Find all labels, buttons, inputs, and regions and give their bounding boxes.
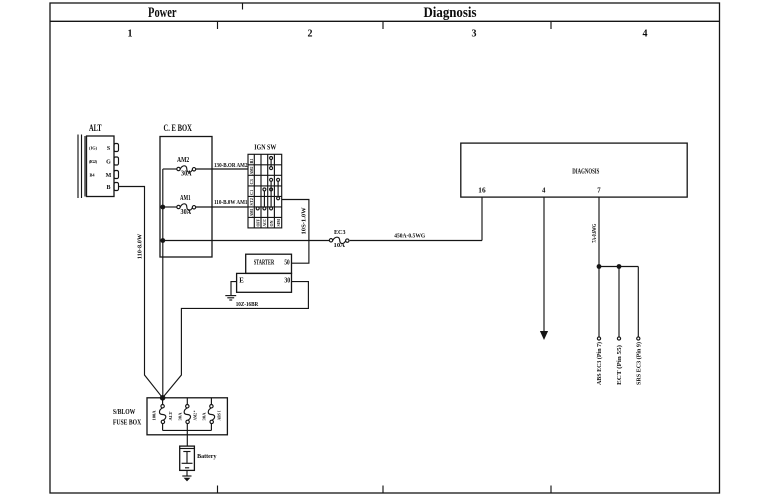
junction branch pin 7 [597,264,639,269]
svg-text:(IG): (IG) [89,146,98,151]
svg-text:ABS EC3 (Pin 7): ABS EC3 (Pin 7) [596,342,603,385]
svg-text:M: M [106,173,112,179]
svg-text:DIAGNOSIS: DIAGNOSIS [572,169,599,176]
svg-text:ON: ON [269,220,274,227]
fuse AM2 30A [163,157,248,178]
wire ALT B to fuse box junction [119,187,163,398]
svg-text:(IG2): (IG2) [89,159,98,164]
wire starter 30 to fuse box junction [163,282,309,398]
fuse EC3 10A [329,229,349,249]
svg-text:4: 4 [542,188,546,195]
svg-text:ALT: ALT [89,124,102,134]
bus wire C.E BOX to fuse box [162,169,164,398]
fuse AM1 30A [160,195,248,216]
fuse ABS 30A (fuse box) [202,398,222,431]
svg-text:4: 4 [643,29,648,40]
svg-text:10A: 10A [334,242,346,249]
wire branch ABS [597,267,600,341]
svg-text:EC3: EC3 [334,229,346,236]
header section tick [242,3,244,10]
svg-text:10S-1.0W: 10S-1.0W [301,207,308,235]
svg-text:FUSE BOX: FUSE BOX [113,420,141,427]
svg-text:B: B [106,185,110,191]
svg-text:7A-0.6WG: 7A-0.6WG [591,224,598,243]
column tick bottom 2 [382,486,384,494]
svg-text:16: 16 [478,188,486,195]
arrow terminator pin 4 [540,331,548,340]
svg-text:C. E BOX: C. E BOX [164,124,192,134]
svg-text:30A: 30A [181,171,192,178]
svg-text:450A-0.5WG: 450A-0.5WG [394,232,425,239]
svg-text:Battery: Battery [197,453,217,460]
alternator pin G tab [114,157,119,165]
svg-text:30A: 30A [202,412,207,421]
svg-text:3: 3 [472,29,477,40]
svg-text:130-B.OR AM2: 130-B.OR AM2 [214,162,248,169]
S/BLOW fuse box body [147,398,227,435]
svg-text:C3: C3 [249,179,254,184]
ground battery [182,476,191,481]
svg-text:50: 50 [284,260,290,267]
svg-text:110-8.0W: 110-8.0W [136,233,143,259]
starter relay lower box [237,273,292,292]
svg-text:ECT (Pin 55): ECT (Pin 55) [616,345,623,385]
header separator line [50,20,720,22]
fuse box bottom bus [163,430,212,446]
wire battery to ground [186,470,188,475]
diagnosis connector box [461,143,687,197]
wire branch ECT [617,267,620,341]
S/BLOW fuse box label [113,409,141,427]
svg-text:100A: 100A [152,410,157,421]
svg-text:OFF: OFF [255,219,260,227]
svg-text:AM1: AM1 [180,195,191,202]
ignition switch table grid [248,154,282,228]
ignition switch row labels [249,158,254,216]
svg-text:SRS EC3 (Pin 9): SRS EC3 (Pin 9) [636,342,643,385]
svg-text:ABS I: ABS I [217,410,222,420]
svg-text:S/BLOW: S/BLOW [113,409,136,416]
ground starter E [225,296,236,300]
svg-text:ST2: ST2 [249,198,254,205]
column tick top 1 [217,21,219,29]
alternator ALT body [78,135,114,199]
column tick bottom 1 [217,486,219,494]
starter relay upper box [246,254,292,273]
wire branch SRS [637,267,640,341]
svg-text:7: 7 [597,188,601,195]
svg-text:STARTER: STARTER [254,260,275,267]
svg-text:Diagnosis: Diagnosis [424,5,477,21]
ignition switch position labels [255,219,280,227]
svg-text:30A: 30A [177,412,182,421]
svg-text:B4: B4 [89,173,95,178]
svg-text:AM1: AM1 [249,209,254,217]
wire diagnosis pin 7 [598,197,600,266]
svg-text:B1: B1 [249,158,254,163]
ignition switch contacts [256,157,279,210]
wire C.E BOX to diagnosis pin 16 [163,197,482,240]
svg-text:AM2: AM2 [177,157,190,164]
battery [180,446,218,470]
svg-text:SIM: SIM [276,219,281,227]
svg-text:30: 30 [284,277,290,284]
svg-text:10Z-16BR: 10Z-16BR [236,301,259,308]
wire diagnosis pin 4 [543,197,545,331]
column tick top 2 [382,21,384,29]
svg-text:E: E [239,277,244,284]
alternator pin B tab [114,183,119,191]
fuse AM2 30A (fuse box) [177,398,197,431]
svg-text:AM2: AM2 [249,167,254,175]
svg-text:C1: C1 [249,190,254,195]
svg-text:110-B.0W AM1: 110-B.0W AM1 [214,199,248,206]
alternator pin M tab [114,171,119,179]
C.E BOX body [160,137,212,258]
fuse ALT 100A [152,398,173,431]
svg-text:AM2 *: AM2 * [193,411,198,421]
svg-text:Power: Power [148,5,177,21]
wire IGN SW to starter pin 50 [282,200,309,264]
svg-text:G: G [106,160,111,166]
svg-text:ALT: ALT [168,411,173,420]
wire starter E to ground [231,282,237,296]
svg-text:ACC: ACC [262,219,267,227]
svg-text:S: S [107,146,111,152]
alternator pin S tab [114,144,119,152]
column tick bottom 3 [550,486,552,494]
svg-text:2: 2 [308,29,313,40]
junction dot fuse box feed [160,395,166,401]
svg-text:IGN SW: IGN SW [254,142,276,151]
svg-text:30A: 30A [181,209,192,216]
junction dot C.E BOX feed [160,238,165,243]
svg-text:1: 1 [128,29,133,40]
column tick top 3 [550,21,552,29]
